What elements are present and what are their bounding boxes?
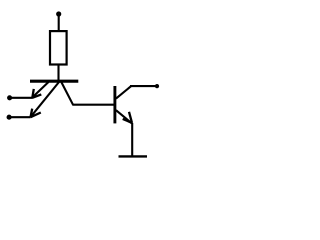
transistor Q1 emitter 2: [31, 82, 59, 117]
wire R1 to Q1 base: [57, 65, 59, 82]
transistor Q1 emitter 1 arrowhead: [32, 89, 41, 98]
wire Q2 collector to output: [130, 85, 157, 87]
transistor Q1 base bar: [30, 80, 78, 83]
wire Q1 collector to Q2 base: [72, 104, 114, 106]
transistor Q2 base bar: [113, 86, 116, 123]
input B terminal dot: [7, 115, 12, 120]
wire Q2 emitter to ground: [131, 123, 133, 156]
ground: [119, 155, 148, 157]
transistor Q2 emitter arrowhead: [123, 112, 132, 123]
input A terminal dot: [7, 95, 12, 100]
output terminal dot: [155, 84, 159, 88]
wire Vcc to R1: [58, 14, 60, 31]
wire input A: [10, 97, 33, 99]
wire input B: [9, 116, 30, 118]
transistor Q2 emitter: [116, 110, 132, 123]
transistor Q2 collector diagonal: [116, 86, 131, 98]
transistor Q1 emitter 2 arrowhead: [31, 109, 41, 118]
transistor Q1 collector diagonal: [61, 82, 73, 105]
resistor R1: [50, 31, 67, 64]
Vcc terminal dot: [56, 11, 61, 16]
transistor Q1 emitter 1: [33, 82, 49, 97]
